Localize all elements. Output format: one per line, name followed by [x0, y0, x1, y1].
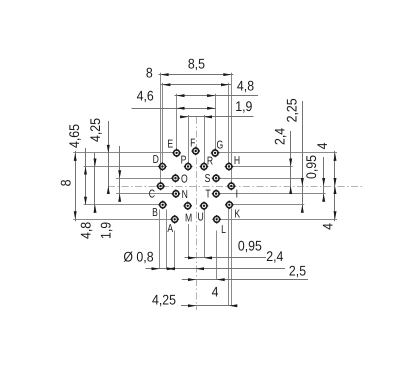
dimension 4/4 right line [334, 151, 336, 221]
dimension 1,9 left line [119, 146, 121, 202]
dimension 8 line [160, 84, 231, 86]
svg-text:F: F [190, 137, 195, 149]
extension line hole edge right of B [166, 210, 168, 269]
dimension 4,25 line [108, 121, 110, 194]
extension line column C [160, 73, 162, 183]
dimension 0,95 right bottom arrow [322, 194, 325, 202]
extension line column H [228, 83, 230, 163]
contact hole D [158, 162, 167, 171]
extension line row T right [220, 193, 326, 195]
extension line column I bottom [231, 208, 233, 305]
contact hole N [172, 189, 181, 198]
extension line row L right [220, 219, 337, 221]
contact hole U [200, 202, 209, 211]
svg-text:O: O [181, 173, 188, 185]
dimension 2,5 line [182, 279, 308, 281]
contact hole O [171, 174, 180, 183]
extension line column M bottom [188, 224, 190, 258]
svg-text:0,95: 0,95 [303, 155, 319, 179]
dimension 4,25 top arrow [107, 145, 110, 153]
svg-text:N: N [182, 189, 188, 201]
svg-text:1,9: 1,9 [235, 98, 252, 114]
svg-text:4,25: 4,25 [87, 118, 103, 142]
dimension 4,8 left arrow [177, 94, 185, 97]
dimension hole diameter left arrow [152, 267, 160, 270]
svg-text:2,25: 2,25 [283, 98, 299, 122]
svg-text:I: I [236, 189, 238, 201]
contact hole S [212, 174, 221, 183]
svg-text:4: 4 [212, 284, 219, 300]
dimension 4,25 bottom arrow [107, 186, 110, 194]
dimension hole/2,4 bottom line [146, 268, 286, 270]
dimension 4,25 bottom arrow [188, 304, 196, 307]
extension line row S right [220, 178, 302, 180]
svg-text:4,8: 4,8 [237, 77, 254, 93]
extension line row N left [116, 193, 172, 195]
dimension 4,6 line [132, 108, 216, 110]
dimension 8,5 left arrow [161, 73, 169, 76]
contact hole M [183, 202, 192, 211]
dimension 4 right top arrow [334, 153, 337, 161]
dimension 4,25/4 bottom line [181, 305, 236, 307]
dimension 2,4 bottom left arrow [167, 267, 175, 270]
dimension 4,8 left bottom arrow [94, 205, 97, 213]
contact hole K [225, 201, 234, 210]
dimension 4 right bottom arrow [334, 211, 337, 219]
extension line row A left [73, 219, 171, 221]
svg-text:K: K [234, 208, 240, 220]
contact hole E [172, 149, 181, 158]
contact hole C [156, 182, 165, 191]
contact hole A [170, 215, 179, 224]
svg-text:A: A [167, 223, 173, 235]
svg-text:R: R [207, 155, 213, 167]
svg-text:4,8: 4,8 [78, 222, 94, 239]
svg-text:4,65: 4,65 [66, 124, 82, 148]
extension line column D [162, 83, 164, 163]
extension line column R [204, 115, 206, 163]
extension line column U bottom [204, 209, 206, 258]
horizontal centerline [108, 186, 362, 188]
dimension 4,6 left arrow [177, 107, 185, 110]
contact hole B [158, 201, 167, 210]
dimension 4 bottom arrow [229, 304, 237, 307]
svg-text:8: 8 [58, 179, 74, 186]
dimension 0,95 bottom line [185, 257, 267, 259]
svg-text:0,95: 0,95 [238, 238, 262, 254]
dimension 2,4 bottom right arrow [196, 267, 204, 270]
dimension 8,5 line [159, 74, 234, 76]
extension line row K right [233, 204, 304, 206]
svg-text:4,25: 4,25 [152, 292, 176, 308]
dimension 8 right arrow [221, 83, 229, 86]
svg-text:2,5: 2,5 [289, 263, 306, 279]
dimension 1,9 left top arrow [118, 170, 121, 178]
dimension 1,9 top line [180, 116, 254, 118]
extension line column E [176, 94, 178, 150]
svg-text:E: E [167, 139, 173, 151]
dimension 0,95 bottom right arrow [204, 256, 212, 259]
extension line column I [231, 73, 233, 183]
dimension 8,5 right arrow [223, 73, 231, 76]
extension line column K bottom [228, 208, 230, 305]
dimension 4,6 right arrow [207, 107, 215, 110]
dimension 2,5 right arrow [217, 278, 225, 281]
svg-text:4: 4 [314, 142, 330, 149]
contact hole I [227, 182, 236, 191]
svg-text:B: B [152, 207, 158, 219]
svg-text:C: C [149, 189, 155, 201]
dimension 2,4 bottom arrow [289, 186, 292, 194]
dimension 4,65 line [85, 148, 87, 205]
svg-text:D: D [153, 154, 159, 166]
extension line row O left [116, 178, 172, 180]
svg-text:H: H [234, 155, 240, 167]
dimension 0,95 right line [323, 157, 325, 202]
dimension 4,8 left line [94, 153, 96, 213]
svg-text:1,9: 1,9 [98, 222, 114, 239]
svg-text:8,5: 8,5 [188, 56, 205, 72]
extension line column P [188, 115, 190, 163]
dimension 8 vertical line [75, 151, 77, 221]
dimension 4 right mid arrow b [334, 186, 337, 194]
dimension 0,95 right top arrow [322, 178, 325, 186]
extension line row B left [84, 204, 159, 206]
dimension 1,9 left bottom arrow [118, 194, 121, 202]
dimension hole diameter right arrow [167, 267, 175, 270]
dimension 1,9 top left arrow [180, 115, 188, 118]
dimension 4 right mid arrow a [334, 178, 337, 186]
svg-text:4: 4 [320, 223, 336, 230]
dimension 4,65 top arrow [84, 167, 87, 175]
svg-text:T: T [205, 189, 210, 201]
vertical centerline [196, 117, 198, 310]
svg-text:2,4: 2,4 [266, 248, 283, 264]
extension line row H right [233, 166, 293, 168]
svg-text:8: 8 [146, 64, 153, 80]
contact hole G [211, 149, 220, 158]
svg-text:M: M [185, 213, 192, 225]
extension line column G [215, 94, 217, 150]
contact hole F [191, 147, 200, 156]
dimension 4,65 bottom arrow [84, 197, 87, 205]
svg-text:G: G [216, 139, 223, 151]
svg-text:2,4: 2,4 [271, 128, 287, 145]
svg-text:Ø 0,8: Ø 0,8 [123, 248, 153, 264]
dimension 0,95 bottom left arrow [188, 256, 196, 259]
svg-text:S: S [205, 173, 211, 185]
dimension 8 vertical top arrow [74, 153, 77, 161]
dimension 2,5 left arrow [188, 278, 196, 281]
dimension 8 vertical bottom arrow [74, 211, 77, 219]
svg-text:P: P [181, 155, 187, 167]
extension line column A bottom [174, 231, 176, 269]
dimension 2,25 bottom arrow [301, 205, 304, 213]
dimension 2,4 top arrow [289, 159, 292, 167]
svg-text:L: L [221, 224, 226, 236]
contact hole H [225, 162, 234, 171]
dimension 2,25 top arrow [301, 178, 304, 186]
contact hole R [200, 162, 209, 171]
extension line row E left [73, 152, 173, 154]
dimension 2,25 line [302, 101, 304, 211]
extension line column L bottom [216, 231, 218, 280]
dimension 4,8 left top arrow [94, 159, 97, 167]
dimension 2,4 line [290, 131, 292, 194]
extension line row G right [219, 152, 337, 154]
dimension 4,8 line [175, 95, 259, 97]
dimension 8 left arrow [162, 83, 170, 86]
extension line row D left [84, 166, 159, 168]
contact hole P [184, 162, 193, 171]
extension line hole edge left of B [159, 210, 161, 269]
svg-text:4,6: 4,6 [137, 87, 154, 103]
contact hole T [212, 189, 221, 198]
dimension 4,8 right arrow [207, 94, 215, 97]
contact hole L [212, 215, 221, 224]
dimension 1,9 top right arrow [204, 115, 212, 118]
svg-text:U: U [197, 212, 203, 224]
